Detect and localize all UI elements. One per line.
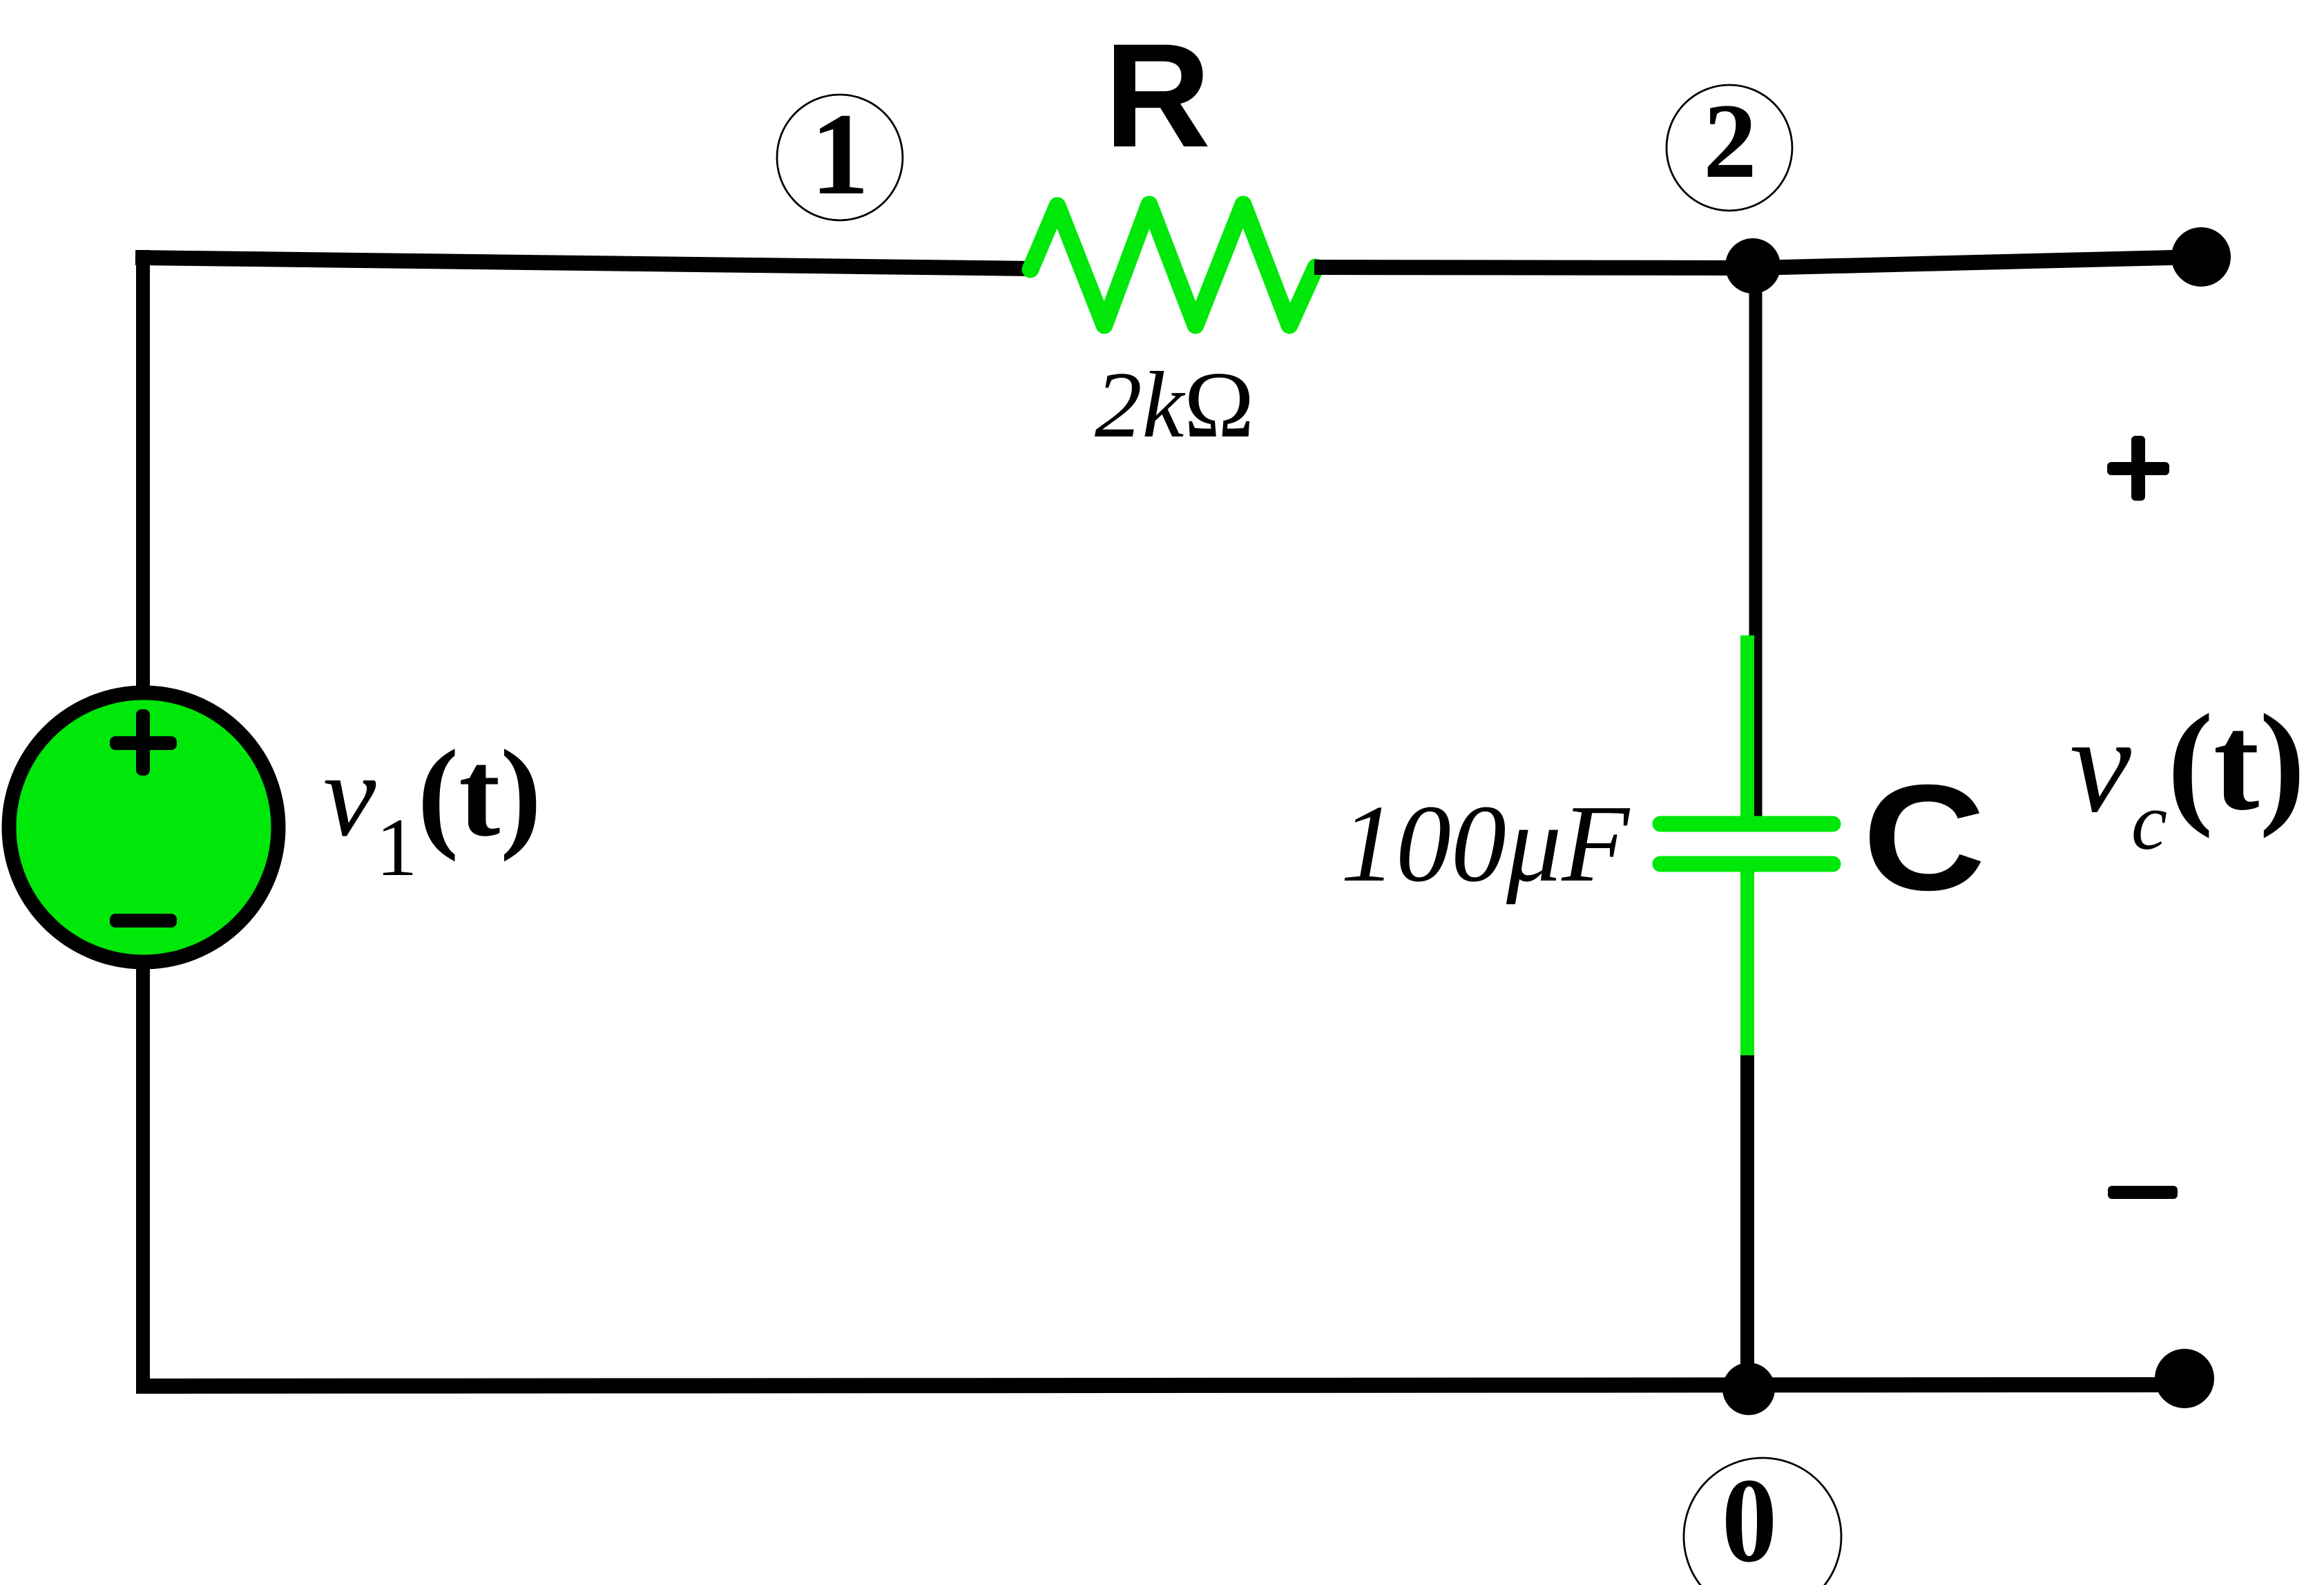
capacitor C top plate bbox=[1660, 816, 1833, 832]
junction dot node 2 bbox=[1725, 238, 1780, 294]
wire bottom horizontal (node 0 net) bbox=[136, 1385, 2184, 1386]
wire node 2 to right terminal bbox=[1753, 257, 2201, 268]
node 0 bbox=[1684, 1453, 1841, 1585]
capacitor C bottom lead bbox=[1740, 864, 1754, 1058]
wire top-left horizontal (node 1 net) bbox=[135, 258, 1033, 269]
svg-text:v1(t): v1(t) bbox=[323, 724, 541, 893]
resistor R bbox=[1030, 204, 1316, 325]
wire node 2 down to capacitor bbox=[1749, 262, 1763, 822]
capacitor C top lead bbox=[1740, 635, 1754, 826]
junction dot node 0 bbox=[1722, 1363, 1775, 1415]
svg-text:vc(t): vc(t) bbox=[2070, 686, 2305, 867]
resistor value 2kΩ bbox=[1095, 352, 1254, 457]
wire capacitor to bottom bbox=[1740, 1055, 1754, 1388]
output plus sign bbox=[2107, 436, 2169, 501]
node 1 bbox=[777, 89, 903, 220]
resistor label R bbox=[1104, 13, 1211, 178]
capacitor C bottom plate bbox=[1660, 856, 1833, 872]
output label vc(t) bbox=[2070, 686, 2305, 867]
capacitor label C bbox=[1863, 754, 1986, 922]
source minus sign bbox=[110, 914, 177, 928]
voltage source V1 circle bbox=[9, 693, 278, 962]
terminal dot bottom right bbox=[2155, 1349, 2214, 1408]
source plus sign bbox=[110, 709, 177, 776]
wire left vertical lower bbox=[136, 960, 150, 1393]
wire left vertical upper bbox=[136, 250, 150, 694]
source label v1(t) bbox=[323, 724, 541, 893]
output minus sign bbox=[2108, 1186, 2178, 1199]
capacitor value 100µF bbox=[1341, 782, 1631, 905]
wire resistor to node 2 bbox=[1314, 267, 1758, 268]
svg-text:C: C bbox=[1863, 754, 1986, 922]
svg-text:1: 1 bbox=[811, 89, 870, 219]
svg-text:2kΩ: 2kΩ bbox=[1095, 352, 1254, 457]
node 2 bbox=[1667, 81, 1792, 211]
svg-text:R: R bbox=[1104, 13, 1211, 178]
svg-text:0: 0 bbox=[1722, 1453, 1777, 1585]
svg-text:100μF: 100μF bbox=[1341, 782, 1631, 905]
svg-text:2: 2 bbox=[1703, 81, 1757, 200]
terminal dot top right bbox=[2171, 227, 2231, 287]
